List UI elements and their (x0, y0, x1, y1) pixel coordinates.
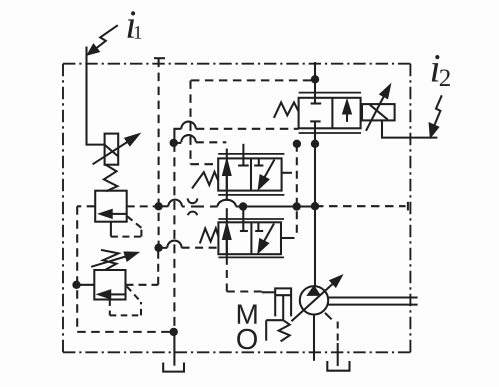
svg-text:1: 1 (133, 23, 143, 44)
svg-text:2: 2 (439, 65, 452, 92)
svg-text:O: O (236, 324, 259, 356)
